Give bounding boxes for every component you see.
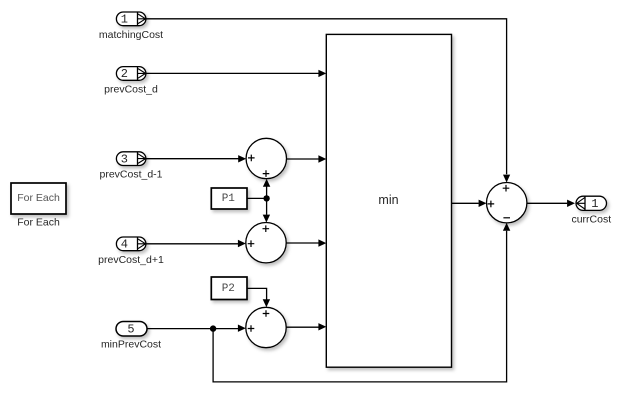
wire junction J1 up to sum S1 bottom: [263, 179, 270, 199]
wire sum S4 to outport: [527, 200, 575, 207]
svg-text:3: 3: [121, 152, 128, 166]
sum S2 (prevCost_d+1 + P1): [246, 223, 286, 263]
inport 3 (prevCost_d-1): [116, 152, 145, 167]
sum S1 (prevCost_d-1 + P1): [246, 138, 286, 178]
svg-text:For Each: For Each: [17, 192, 60, 204]
wire port3 to sum S1: [146, 155, 247, 162]
inport 2 (prevCost_d): [116, 67, 145, 82]
wire P2 to sum S3 top: [247, 288, 270, 307]
wire junction J1 down to sum S2 top: [263, 198, 270, 222]
svg-text:prevCost_d-1: prevCost_d-1: [99, 169, 162, 181]
svg-text:2: 2: [121, 67, 128, 81]
outport 1 (currCost): [576, 196, 607, 211]
inport 5 (minPrevCost): [116, 322, 147, 337]
svg-text:5: 5: [127, 323, 134, 337]
sum S4 (output sum): [487, 183, 527, 223]
svg-text:For Each: For Each: [17, 217, 60, 229]
svg-text:P1: P1: [222, 193, 236, 205]
svg-text:P2: P2: [222, 283, 235, 295]
svg-text:matchingCost: matchingCost: [99, 29, 163, 41]
sum S3 (minPrevCost + P2): [246, 307, 286, 347]
min block U1: [326, 34, 451, 367]
wire junction J2 feedback to sum S4 bottom: [213, 223, 510, 382]
svg-text:prevCost_d: prevCost_d: [104, 84, 158, 96]
wire sum S3 to min input4: [286, 323, 326, 330]
junction J2: [210, 325, 216, 331]
P1 parameter block: [211, 188, 247, 209]
inport 4 (prevCost_d+1): [116, 237, 145, 252]
svg-text:1: 1: [591, 197, 598, 211]
wire min output to sum S4: [452, 200, 487, 207]
wire port4 to sum S2: [146, 240, 246, 247]
svg-text:min: min: [378, 193, 398, 207]
wire port5 to sum S3: [147, 325, 246, 332]
svg-text:1: 1: [121, 13, 128, 27]
wire port1 to sum S4 top: [146, 19, 511, 183]
inport 1 (matchingCost): [116, 12, 145, 27]
For Each block: [11, 183, 66, 214]
svg-text:4: 4: [121, 238, 128, 252]
P2 parameter block: [211, 277, 247, 300]
svg-text:prevCost_d+1: prevCost_d+1: [98, 254, 164, 266]
wire sum S2 to min input3: [286, 239, 326, 246]
wire sum S1 to min input2: [287, 155, 327, 162]
svg-text:minPrevCost: minPrevCost: [101, 339, 161, 351]
junction J1: [263, 195, 269, 201]
svg-text:currCost: currCost: [571, 214, 611, 226]
wire port2 to min input1: [146, 70, 327, 77]
wire P1 to junction J1: [247, 197, 267, 199]
